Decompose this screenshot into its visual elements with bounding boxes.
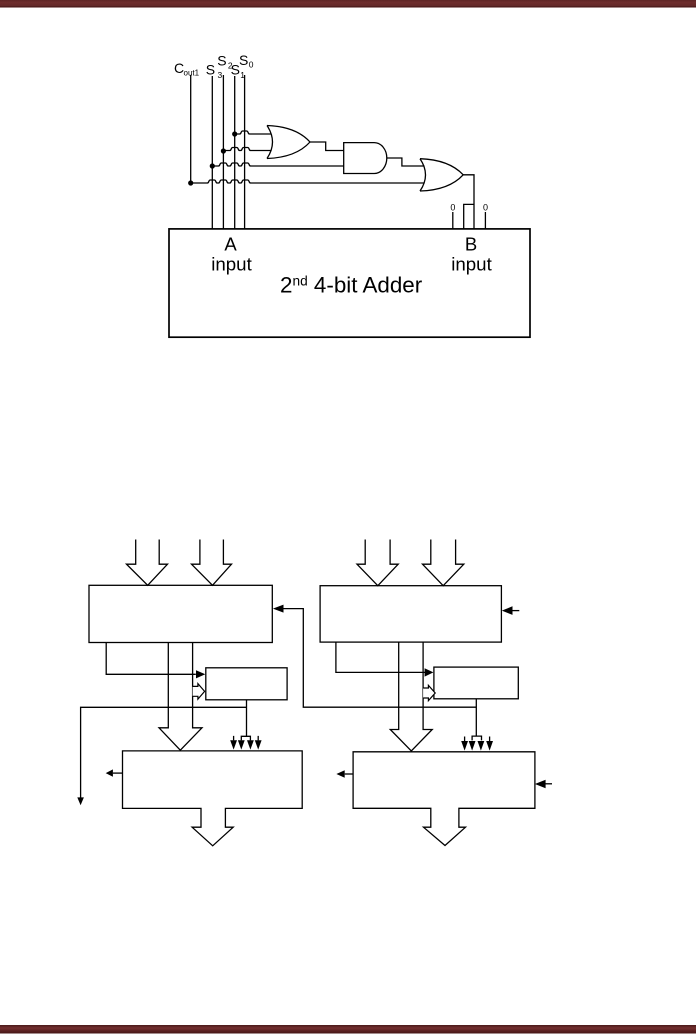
svg-text:0: 0 <box>483 203 488 213</box>
svg-text:S: S <box>239 52 248 68</box>
svg-text:3: 3 <box>218 70 223 80</box>
svg-text:S: S <box>206 62 215 78</box>
svg-text:0: 0 <box>450 203 455 213</box>
svg-text:input: input <box>211 253 252 274</box>
svg-text:S: S <box>217 53 226 69</box>
svg-text:1: 1 <box>240 70 245 80</box>
svg-text:2nd 4-bit Adder: 2nd 4-bit Adder <box>280 273 423 298</box>
svg-text:A: A <box>224 234 237 255</box>
svg-text:0: 0 <box>249 60 254 70</box>
svg-text:B: B <box>465 234 477 255</box>
svg-text:input: input <box>451 253 492 274</box>
svg-text:out1: out1 <box>184 69 200 78</box>
